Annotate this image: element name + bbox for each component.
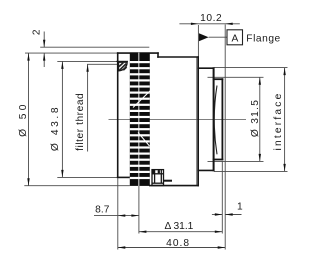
svg-text:Δ 31.1: Δ 31.1 xyxy=(164,221,193,232)
svg-text:1: 1 xyxy=(237,201,243,212)
svg-text:Ø 50: Ø 50 xyxy=(18,101,29,137)
svg-text:filter thread: filter thread xyxy=(75,93,86,151)
svg-text:Ø 31.5: Ø 31.5 xyxy=(250,99,261,137)
svg-text:Flange: Flange xyxy=(246,33,280,44)
svg-text:2: 2 xyxy=(31,29,42,35)
svg-text:8.7: 8.7 xyxy=(95,205,110,216)
svg-text:40.8: 40.8 xyxy=(166,238,190,249)
svg-text:Ø 43.8: Ø 43.8 xyxy=(50,105,61,151)
svg-text:A: A xyxy=(232,33,239,44)
svg-text:interface: interface xyxy=(273,92,284,151)
svg-text:10.2: 10.2 xyxy=(200,13,222,24)
